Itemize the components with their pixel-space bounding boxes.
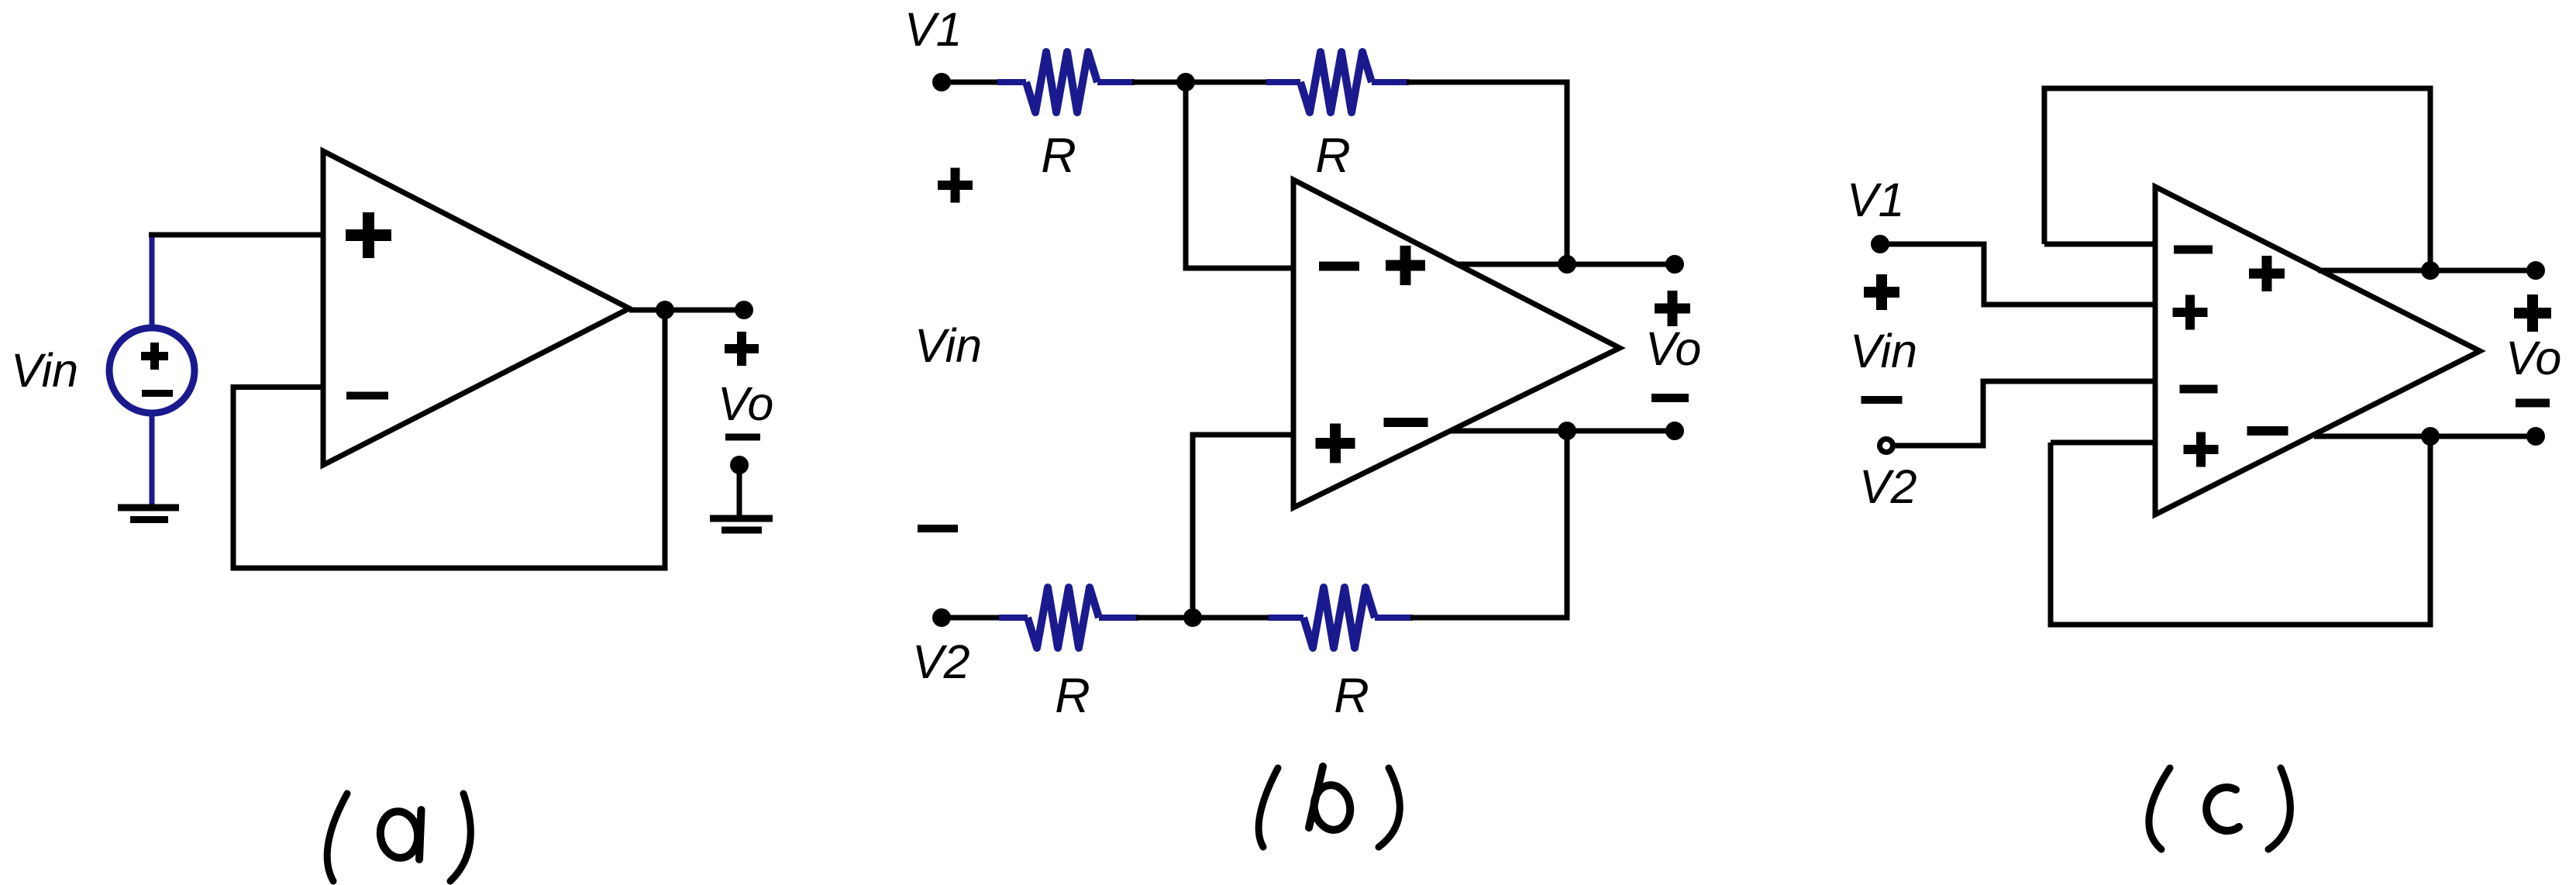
wire V2 to R3 (b) — [942, 615, 1001, 621]
node V1 (c) — [1871, 235, 1889, 253]
svg-text:R: R — [1315, 129, 1351, 183]
op-amp U3 output minus mark — [2247, 426, 2288, 436]
node output terminal (a) — [735, 301, 753, 319]
wire bottom feedback loop (c) — [2051, 436, 2430, 625]
label - Vin (b) — [918, 525, 958, 532]
label + Vin (c) — [1864, 274, 1899, 310]
node output top terminal (c) — [2526, 261, 2545, 280]
caption (b) — [1259, 766, 1400, 847]
ground (a) left bar2 — [130, 516, 168, 523]
caption (a) — [327, 794, 470, 881]
caption (c) — [2149, 768, 2290, 849]
node output top junction (b) — [1558, 255, 1576, 274]
ground (a) right stem — [737, 465, 742, 518]
svg-text:R: R — [1055, 669, 1090, 723]
node junction noninverting (b) — [1183, 608, 1202, 627]
wire output (a) — [629, 308, 744, 313]
wire output bottom (c) — [2314, 434, 2536, 439]
node V2 (b) — [932, 608, 951, 627]
voltage source Vin (a) — [109, 328, 195, 413]
resistor R4 lead right (b) — [1375, 615, 1413, 621]
ground (a) right node — [730, 456, 749, 474]
label + Vo (c) — [2514, 294, 2551, 332]
wire R4 feedback to output (b) — [1410, 431, 1567, 618]
node V1 (b) — [932, 73, 951, 91]
node output bottom terminal (b) — [1665, 422, 1684, 440]
voltage source minus mark (a) — [142, 390, 173, 397]
svg-text:V1: V1 — [1847, 174, 1905, 226]
wire R1 to R2 (b) — [1132, 80, 1269, 85]
wire output top (c) — [2318, 268, 2536, 274]
ground (a) left bar1 — [118, 504, 179, 511]
svg-text:Vin: Vin — [1850, 325, 1917, 377]
op-amp U2 top plus output mark — [1386, 246, 1425, 285]
wire feedback (a) — [233, 313, 665, 568]
resistor R1 lead left (b) — [997, 79, 1026, 85]
resistor R3 lead left (b) — [999, 615, 1028, 621]
resistor R3 (b) — [1028, 587, 1099, 648]
svg-text:R: R — [1334, 669, 1369, 723]
wire top loop stub to input (c) — [2044, 242, 2155, 247]
wire V1 to R1 (b) — [942, 80, 1000, 85]
wire top feedback loop (c) — [2044, 88, 2430, 270]
label - Vo (c) — [2516, 399, 2550, 408]
resistor R4 lead left (b) — [1269, 615, 1303, 621]
wire R2 feedback to output (b) — [1407, 82, 1567, 264]
op-amp U3 input4 plus mark — [2184, 432, 2219, 467]
wire R3 to R4 (b) — [1136, 615, 1271, 621]
wire source bottom to ground (a) — [150, 412, 155, 504]
resistor R4 (b) — [1303, 587, 1375, 648]
op-amp U3 output plus mark — [2249, 256, 2285, 291]
wire output bottom (b) — [1450, 429, 1675, 434]
wire junction up to noninv input (b) — [1193, 435, 1293, 618]
op-amp U2 top minus input mark — [1319, 262, 1359, 271]
voltage source plus mark (a) — [141, 343, 168, 370]
svg-text:V2: V2 — [1859, 460, 1917, 513]
resistor R3 lead right (b) — [1099, 615, 1138, 621]
op-amp U2 (b) — [1293, 180, 1620, 508]
wire bottom loop stub to input (c) — [2051, 440, 2155, 446]
ground (a) right bar2 — [721, 527, 762, 534]
wire junction down to inv input (b) — [1186, 82, 1293, 268]
op-amp U1 (a) — [323, 151, 629, 465]
label + Vo (a) — [725, 332, 759, 366]
op-amp U3 input2 plus mark — [2173, 295, 2208, 330]
node V2 open terminal (c) — [1880, 439, 1893, 453]
wire source top to op-amp (a) horizontal — [149, 232, 323, 238]
svg-text:V2: V2 — [912, 635, 970, 688]
svg-text:V1: V1 — [904, 3, 963, 56]
op-amp U1 minus input mark — [346, 392, 388, 400]
svg-text:Vin: Vin — [11, 344, 78, 397]
node output junction (a) — [656, 301, 674, 319]
svg-text:Vin: Vin — [914, 319, 982, 372]
resistor R2 lead left (b) — [1266, 79, 1300, 85]
label + Vin (b) — [938, 168, 973, 203]
node output bottom terminal (c) — [2526, 427, 2545, 446]
op-amp U3 input3 minus mark — [2180, 385, 2218, 394]
svg-text:Vo: Vo — [718, 377, 773, 430]
op-amp U2 bottom minus output mark — [1384, 418, 1428, 427]
op-amp U3 input1 minus mark — [2174, 246, 2213, 254]
label - Vo (b) — [1651, 394, 1689, 402]
node output top terminal (b) — [1665, 255, 1684, 274]
wire V1 to input (c) — [1880, 244, 2155, 305]
op-amp U2 bottom plus input mark — [1316, 424, 1355, 463]
op-amp U3 (c) — [2155, 187, 2480, 515]
resistor R1 lead right (b) — [1097, 79, 1135, 85]
wire output top (b) — [1457, 262, 1675, 267]
svg-text:Vo: Vo — [2505, 332, 2561, 384]
wire V2 to input (c) — [1895, 381, 2155, 446]
label - Vo (a) — [725, 434, 760, 441]
wire source top to op-amp (a) vertical — [150, 235, 155, 329]
ground (a) right bar1 — [710, 515, 773, 522]
resistor R2 lead right (b) — [1372, 79, 1409, 85]
svg-text:R: R — [1041, 129, 1076, 183]
label - Vin (c) — [1861, 396, 1903, 404]
resistor R2 (b) — [1300, 52, 1372, 112]
resistor R1 (b) — [1026, 52, 1097, 112]
node output bottom junction (b) — [1558, 422, 1576, 440]
node output bottom junction (c) — [2421, 427, 2440, 446]
node junction inverting (b) — [1176, 73, 1195, 91]
op-amp U1 plus input mark — [346, 212, 391, 258]
node output top junction (c) — [2421, 261, 2440, 280]
label + Vo (b) — [1655, 291, 1690, 326]
svg-text:Vo: Vo — [1645, 322, 1701, 375]
